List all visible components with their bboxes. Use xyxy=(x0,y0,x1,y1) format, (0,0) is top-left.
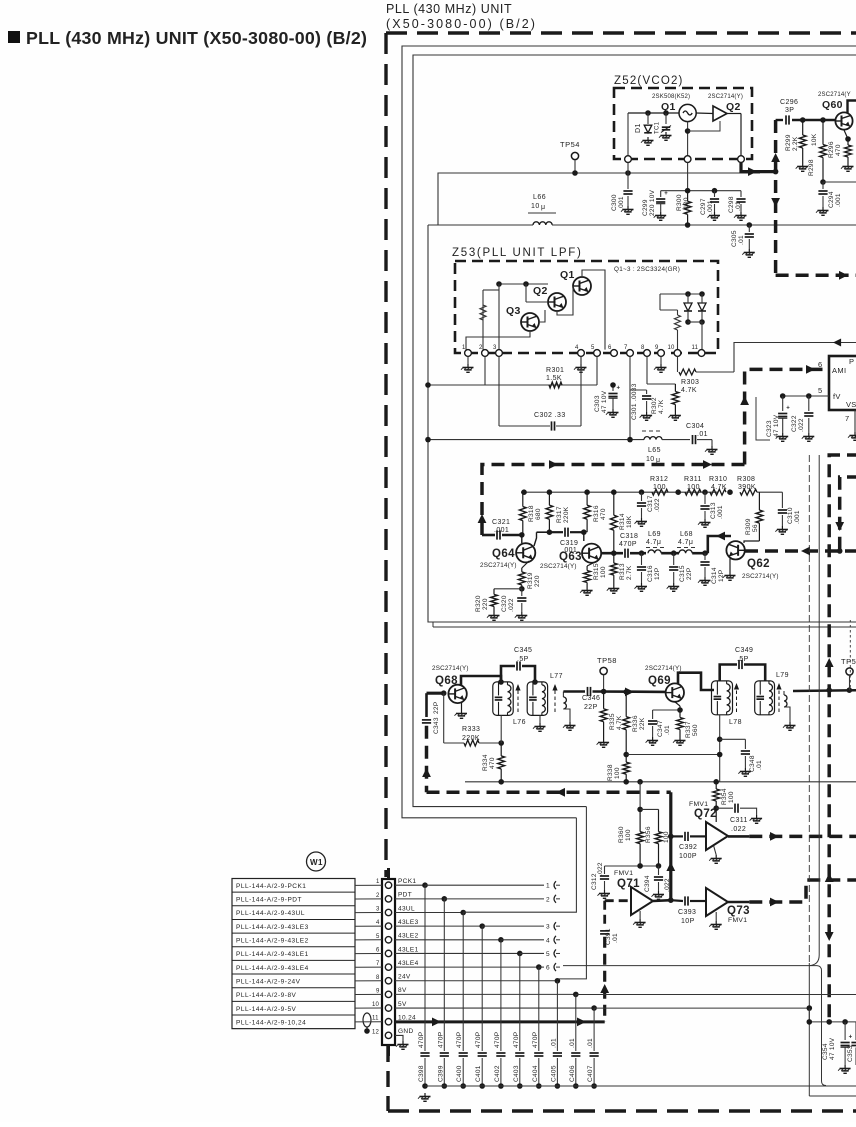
svg-text:470: 470 xyxy=(489,757,496,769)
svg-text:470: 470 xyxy=(600,508,607,520)
svg-text:2: 2 xyxy=(376,893,380,899)
bias node wire xyxy=(605,865,659,867)
svg-text:1.5K: 1.5K xyxy=(546,375,562,382)
svg-text:R320: R320 xyxy=(475,595,482,612)
dashed feedback run xyxy=(427,791,671,795)
43LE4 long wire xyxy=(563,965,817,967)
svg-text:470P: 470P xyxy=(532,1032,539,1048)
svg-text:W1: W1 xyxy=(310,858,323,867)
svg-text:fV: fV xyxy=(833,392,841,401)
wire TP54 node xyxy=(438,173,760,225)
svg-text:C302 .33: C302 .33 xyxy=(534,412,566,419)
Q62 feed dashed from right xyxy=(745,549,856,553)
svg-text:C319: C319 xyxy=(560,540,578,547)
svg-text:.022: .022 xyxy=(597,862,604,876)
svg-text:9: 9 xyxy=(655,345,659,351)
svg-text:R298: R298 xyxy=(808,159,815,176)
dashed path into pin 6 xyxy=(482,465,745,536)
header title block xyxy=(8,31,20,43)
Q72 output dashed xyxy=(728,835,749,838)
svg-text:C402: C402 xyxy=(494,1065,501,1082)
bias wire row xyxy=(626,754,720,756)
outer dashed border xyxy=(386,31,856,34)
thin frame around C323 xyxy=(756,397,770,440)
svg-text:10: 10 xyxy=(668,345,676,351)
svg-text:4.7K: 4.7K xyxy=(616,715,623,730)
decoupling rail under Z52 xyxy=(661,190,741,192)
pin wires xyxy=(395,884,425,886)
svg-text:8: 8 xyxy=(376,975,380,981)
svg-text:C392: C392 xyxy=(679,844,697,851)
svg-text:TC1: TC1 xyxy=(655,121,661,134)
svg-text:PLL-144-A/2-9-8V: PLL-144-A/2-9-8V xyxy=(236,992,297,999)
svg-text:7: 7 xyxy=(624,345,628,351)
svg-text:VS: VS xyxy=(846,400,856,409)
svg-text:C323: C323 xyxy=(766,420,773,437)
svg-text:Q62: Q62 xyxy=(747,558,770,570)
svg-text:10: 10 xyxy=(531,203,540,210)
svg-text:4.7K: 4.7K xyxy=(658,399,665,414)
svg-text:TP54: TP54 xyxy=(560,140,580,149)
svg-text:470P: 470P xyxy=(494,1032,501,1048)
svg-text:Q1: Q1 xyxy=(560,269,575,281)
svg-text:.001: .001 xyxy=(835,193,842,207)
svg-text:.022: .022 xyxy=(508,598,515,612)
svg-text:R337: R337 xyxy=(685,721,692,738)
svg-text:12: 12 xyxy=(372,1029,380,1035)
tank L76 xyxy=(493,682,513,716)
svg-text:Q1~3 : 2SC3324(GR): Q1~3 : 2SC3324(GR) xyxy=(614,266,680,273)
svg-text:C401: C401 xyxy=(475,1065,482,1082)
nested dashed loop A xyxy=(829,455,856,1022)
svg-text:5: 5 xyxy=(818,386,822,395)
svg-text:C398: C398 xyxy=(418,1065,425,1082)
svg-text:L69: L69 xyxy=(648,531,661,538)
svg-text:L68: L68 xyxy=(680,531,693,538)
svg-text:.001: .001 xyxy=(717,505,724,519)
svg-text:43LE4: 43LE4 xyxy=(398,960,419,967)
svg-text:C321: C321 xyxy=(492,519,510,526)
svg-text:FMV1: FMV1 xyxy=(689,801,708,808)
svg-text:C301 .0033: C301 .0033 xyxy=(631,383,638,420)
Z52 bottom pins xyxy=(625,156,632,163)
svg-text:4: 4 xyxy=(546,937,550,944)
svg-text:PLL (430 MHz) UNIT: PLL (430 MHz) UNIT xyxy=(386,2,512,16)
svg-text:C347: C347 xyxy=(657,720,664,737)
svg-text:Q2: Q2 xyxy=(533,285,548,297)
svg-text:Q63: Q63 xyxy=(559,551,582,563)
Q69 emitter network xyxy=(675,702,680,706)
svg-text:R314: R314 xyxy=(619,513,626,530)
svg-text:1: 1 xyxy=(376,879,380,885)
svg-text:2: 2 xyxy=(479,345,483,351)
L78 bottom node to C348 xyxy=(719,715,721,782)
svg-text:6: 6 xyxy=(608,345,612,351)
svg-text:5: 5 xyxy=(546,951,550,958)
svg-text:C298: C298 xyxy=(728,196,735,213)
svg-text:100: 100 xyxy=(625,829,632,841)
connector body xyxy=(382,879,395,1045)
svg-text:.022: .022 xyxy=(654,498,661,512)
svg-text:(X50-3080-00) (B/2): (X50-3080-00) (B/2) xyxy=(386,17,537,31)
svg-text:24V: 24V xyxy=(398,974,411,981)
svg-text:22P: 22P xyxy=(433,702,440,714)
svg-text:Q69: Q69 xyxy=(648,675,671,687)
svg-text:C322: C322 xyxy=(791,415,798,432)
svg-text:8V: 8V xyxy=(398,987,407,994)
svg-text:.01: .01 xyxy=(550,1038,557,1048)
feedback wire from VS xyxy=(734,343,856,373)
8V wire xyxy=(576,994,856,996)
svg-text:R335: R335 xyxy=(609,713,616,730)
svg-text:R311: R311 xyxy=(684,476,702,483)
svg-text:2SC2714(Y): 2SC2714(Y) xyxy=(645,665,682,672)
tank L77 xyxy=(527,682,547,716)
svg-text:470P: 470P xyxy=(475,1032,482,1048)
svg-text:TP58: TP58 xyxy=(597,656,617,665)
svg-text:560: 560 xyxy=(692,724,699,736)
inner thin frame 1 xyxy=(402,46,856,818)
svg-text:9: 9 xyxy=(376,988,380,994)
svg-text:47 10V: 47 10V xyxy=(829,1037,836,1060)
svg-text:6: 6 xyxy=(376,947,380,953)
svg-text:C345: C345 xyxy=(514,647,532,654)
wire L66 rail xyxy=(428,224,533,226)
svg-text:C311: C311 xyxy=(730,817,748,824)
svg-text:PLL-144-A/2-9-24V: PLL-144-A/2-9-24V xyxy=(236,978,301,985)
svg-text:.5P: .5P xyxy=(517,656,529,663)
svg-text:C305: C305 xyxy=(731,230,738,247)
svg-text:4.7μ: 4.7μ xyxy=(646,539,661,546)
svg-text:2.7K: 2.7K xyxy=(626,565,633,580)
svg-text:C318: C318 xyxy=(620,533,638,540)
svg-text:Q71: Q71 xyxy=(617,878,640,890)
buffer Q2 triangle xyxy=(713,106,727,121)
svg-text:4.7μ: 4.7μ xyxy=(678,539,693,546)
connector designator W1 xyxy=(307,852,326,871)
svg-text:R299: R299 xyxy=(785,134,792,151)
Z53 right diodes xyxy=(660,293,702,295)
svg-text:R319: R319 xyxy=(527,572,534,589)
svg-text:22P: 22P xyxy=(584,704,598,711)
svg-text:Q64: Q64 xyxy=(492,548,515,560)
svg-text:Z52(VCO2): Z52(VCO2) xyxy=(614,75,684,87)
svg-text:R313: R313 xyxy=(619,563,626,580)
L65 10mu + C304 xyxy=(428,439,644,441)
svg-text:47 10V: 47 10V xyxy=(773,414,780,437)
svg-text:PLL-144-A/2-9-PCK1: PLL-144-A/2-9-PCK1 xyxy=(236,883,306,890)
svg-text:.01: .01 xyxy=(612,933,619,943)
svg-text:100: 100 xyxy=(663,831,670,843)
10.24 bus thick xyxy=(395,1020,605,1023)
Z52 output path xyxy=(741,163,776,172)
svg-text:+: + xyxy=(664,191,668,197)
L77 secondary coil xyxy=(562,692,564,698)
svg-text:C354: C354 xyxy=(822,1043,829,1060)
svg-text:C404: C404 xyxy=(532,1065,539,1082)
svg-text:.01: .01 xyxy=(664,725,671,735)
svg-text:P: P xyxy=(849,357,854,366)
svg-text:220 10V: 220 10V xyxy=(649,189,656,216)
svg-text:R356: R356 xyxy=(645,826,652,843)
svg-text:PLL-144-A/2-9-43LE2: PLL-144-A/2-9-43LE2 xyxy=(236,938,309,945)
svg-text:3: 3 xyxy=(493,345,497,351)
svg-text:TP59: TP59 xyxy=(841,657,856,666)
svg-text:C297: C297 xyxy=(700,198,707,215)
Q69 output wire to TP59 column xyxy=(793,689,856,692)
Z53 pins 1-11 xyxy=(465,350,472,357)
svg-text:470P: 470P xyxy=(619,541,637,548)
inner loop wire xyxy=(428,225,856,622)
bypass ground bus xyxy=(425,1085,856,1087)
svg-text:C303: C303 xyxy=(594,395,601,412)
svg-text:C348: C348 xyxy=(749,755,756,772)
svg-text:.022: .022 xyxy=(798,418,805,432)
svg-text:1: 1 xyxy=(462,345,466,351)
svg-text:R316: R316 xyxy=(593,505,600,522)
svg-text:Q2: Q2 xyxy=(726,101,741,113)
svg-text:L77: L77 xyxy=(550,673,563,680)
svg-text:10K: 10K xyxy=(811,133,818,146)
supply rail xyxy=(465,781,856,783)
svg-text:C314: C314 xyxy=(711,567,718,584)
svg-text:L66: L66 xyxy=(533,194,546,201)
svg-text:6: 6 xyxy=(546,965,550,972)
oscillator Q1 circle xyxy=(679,104,696,121)
svg-text:100P: 100P xyxy=(679,853,697,860)
svg-text:3: 3 xyxy=(546,924,550,931)
svg-text:470P: 470P xyxy=(418,1032,425,1048)
svg-text:GND: GND xyxy=(398,1028,414,1035)
svg-text:.001: .001 xyxy=(794,510,801,524)
svg-text:3P: 3P xyxy=(785,107,794,114)
svg-text:L76: L76 xyxy=(513,719,526,726)
svg-text:43LE3: 43LE3 xyxy=(398,919,419,926)
Z52 dashed box xyxy=(614,88,752,159)
svg-text:C300: C300 xyxy=(611,194,618,211)
svg-text:.01: .01 xyxy=(569,1038,576,1048)
svg-text:R338: R338 xyxy=(607,764,614,781)
svg-text:C316: C316 xyxy=(647,565,654,582)
svg-text:C294: C294 xyxy=(828,191,835,208)
Q71 ground xyxy=(639,911,641,919)
svg-text:PCK1: PCK1 xyxy=(398,878,416,885)
nested dashed loop B xyxy=(840,477,856,551)
svg-text:C315: C315 xyxy=(679,565,686,582)
svg-text:C393: C393 xyxy=(678,909,696,916)
24V wire up xyxy=(557,807,586,979)
svg-text:100: 100 xyxy=(614,767,621,779)
svg-text:C317: C317 xyxy=(647,495,654,512)
svg-text:FMV1: FMV1 xyxy=(614,870,633,877)
svg-text:μ: μ xyxy=(541,204,545,211)
Q69 collector to L78 xyxy=(678,673,714,690)
svg-text:C320: C320 xyxy=(501,595,508,612)
svg-text:C394: C394 xyxy=(644,875,651,892)
svg-text:.01: .01 xyxy=(697,431,708,438)
svg-text:PLL-144-A/2-9-43LE1: PLL-144-A/2-9-43LE1 xyxy=(236,951,309,958)
svg-text:Z53(PLL UNIT LPF): Z53(PLL UNIT LPF) xyxy=(452,247,583,259)
svg-text:5: 5 xyxy=(591,345,595,351)
svg-text:PLL-144-A/2-9-43LE4: PLL-144-A/2-9-43LE4 xyxy=(236,965,309,972)
pin 5 wire xyxy=(783,395,829,397)
svg-text:R308: R308 xyxy=(737,476,755,483)
svg-text:R318: R318 xyxy=(528,505,535,522)
svg-text:2SC2714(Y: 2SC2714(Y xyxy=(818,92,851,98)
svg-text:4: 4 xyxy=(376,920,380,926)
svg-text:PLL-144-A/2-9-10,24: PLL-144-A/2-9-10,24 xyxy=(236,1019,306,1026)
top rail of IF amp row xyxy=(521,491,718,493)
Q72 ground xyxy=(714,846,717,855)
svg-text:43UL: 43UL xyxy=(398,905,415,912)
svg-text:10: 10 xyxy=(646,456,655,463)
svg-text:C343: C343 xyxy=(433,717,440,734)
GND pin ground xyxy=(395,1035,403,1041)
svg-text:Q72: Q72 xyxy=(694,808,717,820)
Z53 left bias resistor xyxy=(482,290,484,350)
svg-text:R315: R315 xyxy=(593,563,600,580)
svg-text:R317: R317 xyxy=(556,506,563,523)
svg-text:C403: C403 xyxy=(513,1065,520,1082)
svg-text:C349: C349 xyxy=(735,647,753,654)
svg-text:R301: R301 xyxy=(546,367,564,374)
43UL wire up xyxy=(463,818,576,912)
svg-text:Q60: Q60 xyxy=(822,99,843,111)
thin vertical frame right xyxy=(818,455,820,955)
svg-text:11: 11 xyxy=(692,345,699,351)
svg-text:390K: 390K xyxy=(738,484,756,491)
svg-text:+: + xyxy=(617,386,621,392)
svg-text:100: 100 xyxy=(728,791,735,803)
svg-text:PLL-144-A/2-9-43UL: PLL-144-A/2-9-43UL xyxy=(236,910,305,917)
svg-text:100: 100 xyxy=(600,566,607,578)
svg-text:Q1: Q1 xyxy=(661,101,676,113)
svg-text:2: 2 xyxy=(546,896,550,903)
svg-text:4.7K: 4.7K xyxy=(681,387,697,394)
tank L78 xyxy=(712,681,733,715)
svg-text:R334: R334 xyxy=(482,754,489,771)
svg-text:.01: .01 xyxy=(756,760,763,770)
IC AMI box xyxy=(829,356,856,410)
svg-text:R360: R360 xyxy=(618,826,625,843)
svg-text:2SC2714(Y): 2SC2714(Y) xyxy=(708,94,743,100)
svg-text:R300: R300 xyxy=(676,194,683,211)
svg-text:470P: 470P xyxy=(513,1032,520,1048)
svg-text:R312: R312 xyxy=(650,476,668,483)
svg-text:7: 7 xyxy=(845,414,849,423)
svg-text:C405: C405 xyxy=(550,1065,557,1082)
svg-text:47 10V: 47 10V xyxy=(601,390,608,413)
svg-text:.022: .022 xyxy=(731,826,746,833)
svg-text:+: + xyxy=(849,1035,853,1041)
svg-text:R309: R309 xyxy=(745,518,752,535)
5V wire xyxy=(594,1007,809,1009)
svg-text:.01: .01 xyxy=(587,1038,594,1048)
svg-text:22P: 22P xyxy=(686,568,693,580)
harness table xyxy=(232,879,355,1029)
svg-text:C299: C299 xyxy=(642,199,649,216)
pin7 ground xyxy=(854,410,856,432)
svg-text:470: 470 xyxy=(835,144,842,156)
svg-text:R336: R336 xyxy=(632,715,639,732)
Q64 collector to C319 xyxy=(534,532,537,546)
svg-text:FMV1: FMV1 xyxy=(728,917,747,924)
svg-text:C406: C406 xyxy=(569,1065,576,1082)
svg-text:4: 4 xyxy=(575,345,579,351)
svg-text:L79: L79 xyxy=(776,672,789,679)
Q60 collector out xyxy=(848,101,856,114)
svg-text:.001: .001 xyxy=(618,196,625,210)
svg-text:C304: C304 xyxy=(686,423,704,430)
svg-text:C353: C353 xyxy=(847,1045,854,1062)
Z53 dashed box xyxy=(455,261,718,353)
svg-text:12P: 12P xyxy=(654,568,661,580)
main IF wire Q63-Q62 xyxy=(601,552,623,555)
svg-text:PLL-144-A/2-9-5V: PLL-144-A/2-9-5V xyxy=(236,1006,297,1013)
svg-text:R296: R296 xyxy=(828,141,835,158)
svg-text:2SC2714(Y): 2SC2714(Y) xyxy=(432,665,469,672)
svg-text:10: 10 xyxy=(372,1002,380,1008)
svg-text:2SC2714(Y): 2SC2714(Y) xyxy=(540,563,577,570)
svg-text:C310: C310 xyxy=(787,507,794,524)
svg-text:8: 8 xyxy=(641,345,645,351)
svg-text:5: 5 xyxy=(376,934,380,940)
svg-text:PDT: PDT xyxy=(398,892,412,899)
svg-text:43LE2: 43LE2 xyxy=(398,933,419,940)
svg-text:7: 7 xyxy=(376,961,380,967)
svg-text:R354: R354 xyxy=(721,788,728,805)
svg-text:R333: R333 xyxy=(462,726,480,733)
svg-text:D1: D1 xyxy=(635,123,642,133)
svg-text:5V: 5V xyxy=(398,1001,407,1008)
svg-text:12P: 12P xyxy=(718,570,725,582)
svg-text:PLL (430 MHz) UNIT (X50-3080-0: PLL (430 MHz) UNIT (X50-3080-00) (B/2) xyxy=(26,28,367,48)
svg-text:C399: C399 xyxy=(437,1065,444,1082)
svg-text:C400: C400 xyxy=(456,1065,463,1082)
svg-text:C407: C407 xyxy=(587,1065,594,1082)
svg-text:C313: C313 xyxy=(710,502,717,519)
svg-text:56: 56 xyxy=(752,524,759,532)
svg-text:1: 1 xyxy=(546,883,550,890)
svg-text:470P: 470P xyxy=(456,1032,463,1048)
svg-text:Q73: Q73 xyxy=(727,905,750,917)
svg-text:2SC2714(Y): 2SC2714(Y) xyxy=(480,562,517,569)
svg-text:43LE1: 43LE1 xyxy=(398,946,419,953)
Q71 input from 10.24 xyxy=(605,899,631,902)
Z53 internal wiring xyxy=(499,283,548,285)
Z52 internal wires xyxy=(628,112,679,114)
bypass caps row xyxy=(424,885,426,1051)
feed into Q68 base xyxy=(427,692,444,695)
svg-text:+: + xyxy=(786,406,790,412)
svg-text:R303: R303 xyxy=(681,379,699,386)
L79 secondary xyxy=(783,691,785,695)
svg-text:.022: .022 xyxy=(664,878,671,892)
svg-text:470P: 470P xyxy=(437,1032,444,1048)
svg-text:11: 11 xyxy=(372,1016,379,1022)
svg-text:.01: .01 xyxy=(738,235,745,245)
svg-text:R310: R310 xyxy=(709,476,727,483)
svg-text:10P: 10P xyxy=(681,918,695,925)
svg-text:680: 680 xyxy=(535,508,542,520)
Z53 pin grounds xyxy=(467,356,469,364)
inner thin frame 2 xyxy=(413,55,856,807)
Q68 collector to L76 xyxy=(461,676,501,686)
ferrite bead pin 11 xyxy=(363,1013,371,1027)
svg-text:L65: L65 xyxy=(648,447,661,454)
svg-text:PLL-144-A/2-9-43LE3: PLL-144-A/2-9-43LE3 xyxy=(236,924,309,931)
svg-text:220: 220 xyxy=(482,598,489,610)
